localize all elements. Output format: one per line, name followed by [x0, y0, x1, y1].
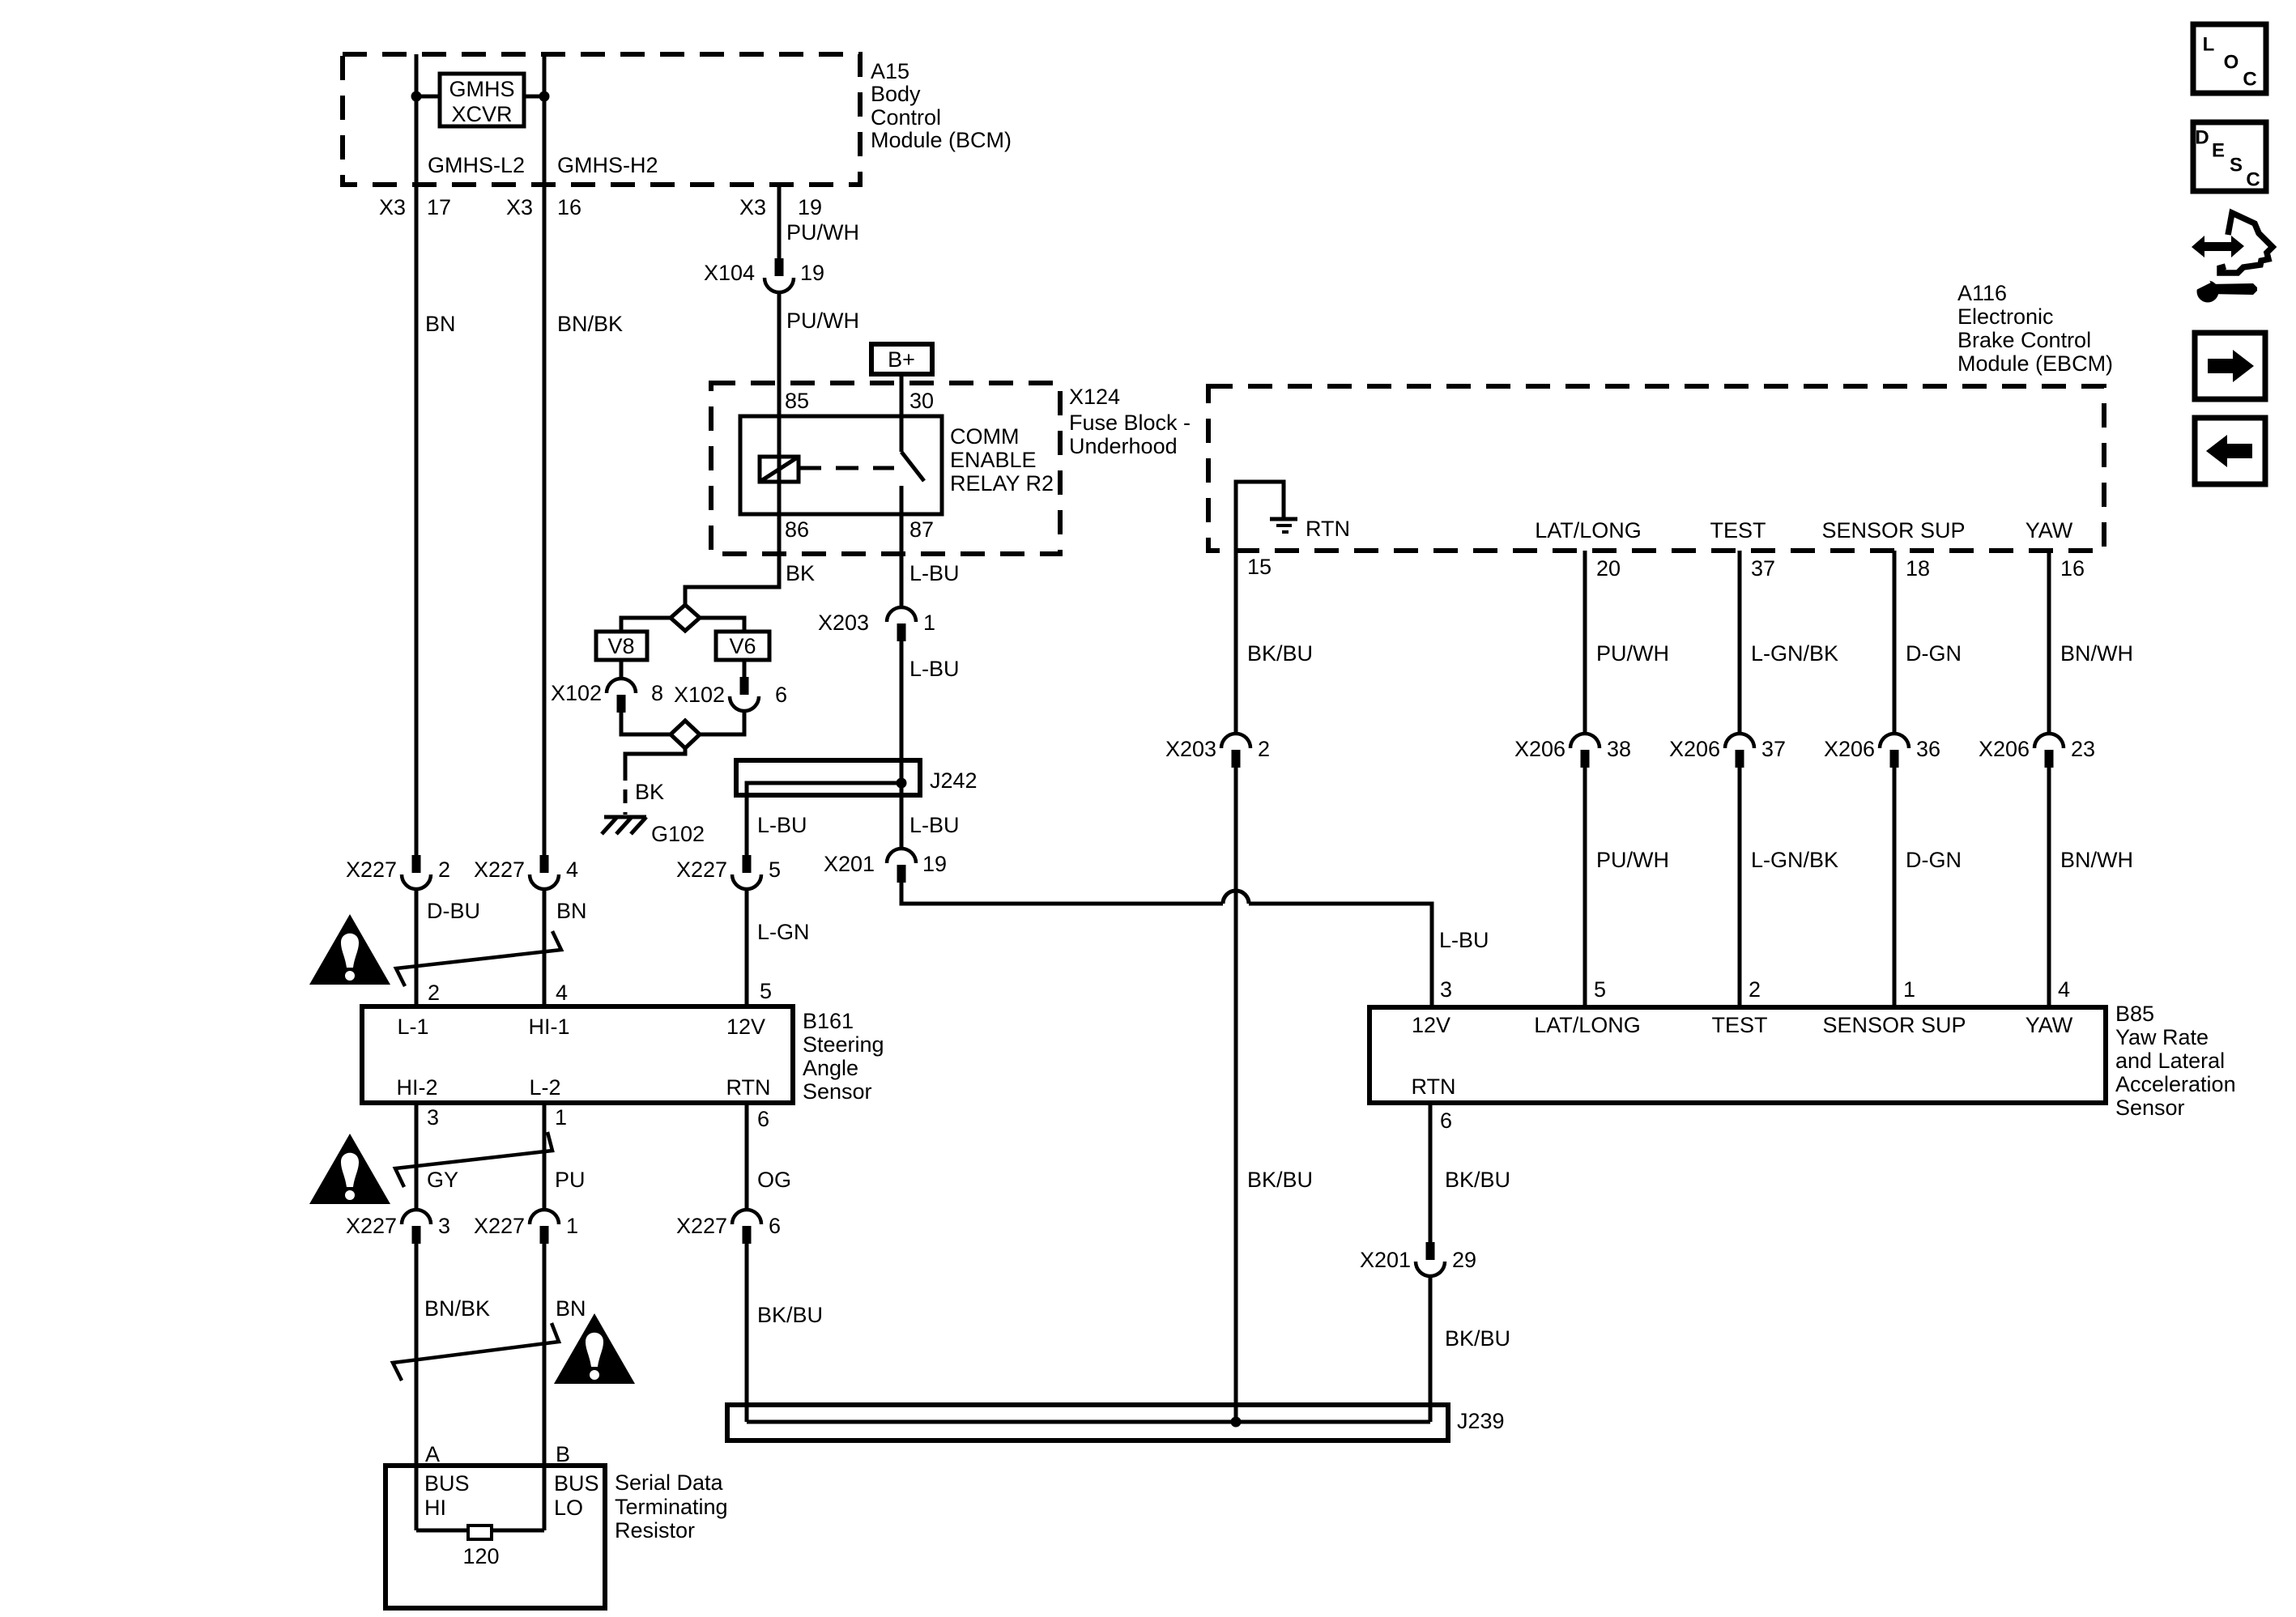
svg-text:X206: X206	[1669, 737, 1720, 761]
svg-text:3: 3	[427, 1105, 439, 1130]
relay R2 COMM ENABLE RELAY box	[740, 416, 942, 514]
svg-text:19: 19	[922, 852, 947, 876]
svg-text:Terminating: Terminating	[615, 1495, 728, 1519]
svg-text:GY: GY	[427, 1168, 458, 1192]
svg-text:HI-2: HI-2	[396, 1075, 437, 1100]
svg-text:87: 87	[909, 517, 934, 542]
svg-text:BN: BN	[425, 312, 456, 336]
svg-text:TEST: TEST	[1711, 1013, 1767, 1037]
svg-text:L: L	[2203, 34, 2215, 56]
wire BK/BU from X227-6 to J239	[745, 1244, 749, 1422]
wire D-GN from EBCM pin 18 to X206-36	[1893, 551, 1897, 734]
svg-text:1: 1	[555, 1105, 567, 1130]
svg-text:A: A	[425, 1442, 440, 1466]
svg-text:X227: X227	[676, 1214, 727, 1238]
wire D-GN from X206-36 to B85 pin 1	[1893, 768, 1897, 1006]
svg-text:L-GN: L-GN	[757, 920, 810, 944]
connector X201 pin 29	[1360, 1242, 1476, 1276]
wire PU/WH from EBCM pin 20 to X206-38	[1583, 551, 1587, 734]
svg-text:L-BU: L-BU	[909, 561, 960, 585]
svg-text:38: 38	[1607, 737, 1631, 761]
svg-text:Electronic: Electronic	[1957, 304, 2054, 329]
svg-text:X227: X227	[474, 857, 525, 882]
svg-text:X201: X201	[824, 852, 875, 876]
svg-text:E: E	[2212, 140, 2225, 162]
wire BN/WH from X206-23 to B85 pin 4	[2047, 768, 2051, 1006]
wire L-BU from X201-19 over to B85 pin 3 (with hop)	[901, 883, 1223, 904]
svg-text:and Lateral: and Lateral	[2115, 1049, 2225, 1073]
svg-text:5: 5	[769, 857, 781, 882]
ground symbol (signal ground) inside EBCM	[1270, 519, 1297, 532]
svg-text:L-BU: L-BU	[757, 813, 807, 837]
connector X201 pin 19	[824, 849, 947, 883]
svg-text:Module (BCM): Module (BCM)	[871, 128, 1012, 152]
connector X227 pin 2	[346, 855, 450, 889]
svg-text:L-BU: L-BU	[1439, 928, 1489, 952]
svg-text:16: 16	[557, 195, 581, 219]
svg-text:17: 17	[427, 195, 451, 219]
connector X227 pin 4	[474, 855, 578, 889]
splice pack J242 box	[736, 760, 978, 795]
svg-text:LAT/LONG: LAT/LONG	[1535, 518, 1642, 543]
svg-text:G102: G102	[651, 822, 705, 846]
wire BK/BU from X203-2 down to J239	[1234, 768, 1238, 1422]
svg-text:X227: X227	[346, 1214, 397, 1238]
module A15 Body Control Module (BCM) dashed box	[343, 54, 860, 185]
svg-text:37: 37	[1761, 737, 1786, 761]
svg-text:2: 2	[428, 981, 440, 1005]
svg-text:36: 36	[1916, 737, 1940, 761]
sensor B161 Steering Angle Sensor box	[362, 1006, 793, 1103]
svg-text:RTN: RTN	[726, 1075, 770, 1100]
svg-text:Serial Data: Serial Data	[615, 1470, 724, 1495]
wire GMHS-H2 (BN/BK) from BCM to X227 pin 4	[543, 54, 547, 855]
connector X104 pin 19	[704, 258, 824, 292]
svg-text:BN/BK: BN/BK	[557, 312, 623, 336]
power feed B+ box	[871, 344, 932, 374]
svg-text:2: 2	[1749, 977, 1761, 1002]
svg-text:L-BU: L-BU	[909, 657, 960, 681]
wire BN/BK from X227-3 to resistor A	[415, 1244, 419, 1530]
svg-text:BK: BK	[635, 780, 664, 804]
svg-text:LAT/LONG: LAT/LONG	[1534, 1013, 1641, 1037]
svg-text:HI-1: HI-1	[528, 1015, 569, 1039]
wire BN from X227-1 to resistor B	[543, 1244, 547, 1530]
connector X206 pin 38	[1514, 734, 1631, 768]
svg-text:12V: 12V	[1412, 1013, 1450, 1037]
svg-text:15: 15	[1247, 555, 1272, 579]
svg-text:2: 2	[1258, 737, 1270, 761]
wire L-GN/BK from EBCM pin 37 to X206-37	[1738, 551, 1742, 734]
warning triangle 3	[554, 1313, 635, 1384]
svg-text:RTN: RTN	[1411, 1074, 1455, 1099]
svg-text:S: S	[2230, 155, 2243, 177]
svg-text:RTN: RTN	[1306, 517, 1350, 541]
svg-text:4: 4	[566, 857, 578, 882]
label Serial Data Terminating Resistor	[615, 1470, 728, 1543]
fuse V8 box	[596, 632, 647, 660]
relay actuation dashed link	[799, 466, 894, 470]
svg-text:X201: X201	[1360, 1248, 1411, 1272]
splice diamond lower	[671, 721, 700, 748]
svg-text:1: 1	[566, 1214, 578, 1238]
wire L-GN/BK from X206-37 to B85 pin 2	[1738, 768, 1742, 1006]
svg-text:HI: HI	[424, 1496, 446, 1520]
svg-text:L-1: L-1	[397, 1015, 428, 1039]
twisted pair flag 1	[396, 931, 561, 986]
svg-text:X203: X203	[1165, 737, 1216, 761]
relay coil K (with diagonal)	[760, 457, 799, 482]
wire OG from B161 pin 6 to X227-6	[745, 1103, 749, 1210]
svg-text:XCVR: XCVR	[451, 102, 512, 126]
wire BK/BU from X201-29 to J239	[1429, 1276, 1433, 1422]
svg-text:Angle: Angle	[803, 1056, 858, 1080]
connector X206 pin 23	[1979, 734, 2095, 768]
warning triangle 2	[309, 1134, 390, 1204]
resistor 120 ohm	[462, 1526, 499, 1568]
svg-text:12V: 12V	[726, 1015, 765, 1039]
svg-text:6: 6	[775, 683, 787, 707]
svg-text:X227: X227	[676, 857, 727, 882]
wire B+ to relay pin 30	[900, 374, 904, 452]
ground G102 symbol	[602, 817, 705, 846]
svg-text:D-GN: D-GN	[1906, 641, 1962, 666]
svg-text:B+: B+	[888, 347, 915, 372]
svg-text:GMHS-L2: GMHS-L2	[428, 153, 525, 177]
svg-text:PU/WH: PU/WH	[1596, 641, 1669, 666]
wire BK dashed to G102	[624, 767, 628, 815]
svg-text:Control: Control	[871, 105, 941, 130]
svg-text:BN/BK: BN/BK	[424, 1296, 490, 1321]
splice diamond upper	[671, 605, 700, 631]
twisted pair flag 2	[395, 1132, 552, 1187]
connector X102 pin 8	[551, 679, 663, 713]
label B161 Steering Angle Sensor	[803, 1009, 884, 1104]
icon DESC button	[2193, 122, 2266, 191]
junction node in J242	[897, 778, 907, 789]
svg-text:BK: BK	[786, 561, 815, 585]
svg-text:120: 120	[462, 1544, 499, 1568]
svg-text:X206: X206	[1979, 737, 2030, 761]
wire X102-6 to splice	[700, 711, 744, 734]
svg-text:4: 4	[2058, 977, 2070, 1002]
svg-text:L-BU: L-BU	[909, 813, 960, 837]
svg-text:PU/WH: PU/WH	[1596, 848, 1669, 872]
connector X102 pin 6	[674, 677, 787, 711]
svg-text:X104: X104	[704, 261, 755, 285]
svg-text:4: 4	[556, 981, 568, 1005]
svg-text:D: D	[2195, 127, 2209, 149]
svg-text:X102: X102	[551, 681, 602, 705]
svg-text:B: B	[556, 1442, 570, 1466]
svg-text:C: C	[2243, 69, 2256, 91]
wire PU/WH from X104 to relay pin 85	[777, 292, 782, 457]
svg-text:3: 3	[1440, 977, 1452, 1002]
svg-text:GMHS-H2: GMHS-H2	[557, 153, 658, 177]
svg-text:X124: X124	[1069, 385, 1120, 409]
svg-text:16: 16	[2060, 556, 2085, 581]
svg-text:J242: J242	[930, 768, 978, 793]
svg-text:BK/BU: BK/BU	[1247, 641, 1313, 666]
connector X227 pin 3	[346, 1210, 450, 1244]
svg-text:COMM: COMM	[950, 424, 1019, 449]
wire BK from relay pin 86	[685, 482, 779, 605]
wire PU/WH from X206-38 to B85 pin 5	[1583, 768, 1587, 1006]
wire EBCM internal RTN to ground	[1236, 482, 1284, 551]
svg-text:BK/BU: BK/BU	[1445, 1326, 1510, 1351]
svg-text:19: 19	[798, 195, 822, 219]
svg-text:BUS: BUS	[554, 1471, 599, 1496]
wire BK/BU from B85 pin 6 to X201-29	[1429, 1103, 1433, 1242]
svg-text:20: 20	[1596, 556, 1621, 581]
svg-text:OG: OG	[757, 1168, 791, 1192]
wire V8 to X102-8	[620, 660, 624, 679]
svg-text:D-BU: D-BU	[427, 899, 480, 923]
svg-text:Body: Body	[871, 82, 921, 106]
connector X227 pin 6	[676, 1210, 781, 1244]
svg-text:BN/WH: BN/WH	[2060, 848, 2133, 872]
wire V6 to X102-6	[743, 660, 747, 677]
icon LOC button	[2193, 24, 2266, 93]
svg-text:85: 85	[785, 389, 809, 413]
svg-text:BK/BU: BK/BU	[1247, 1168, 1313, 1192]
junction node in J239	[1231, 1417, 1242, 1428]
svg-text:PU/WH: PU/WH	[786, 309, 859, 333]
connector X203 pin 2	[1165, 734, 1270, 768]
svg-text:X206: X206	[1824, 737, 1875, 761]
connector X203 pin 1	[818, 607, 935, 641]
wire stub XCVR left	[416, 95, 440, 99]
svg-text:B85: B85	[2115, 1002, 2154, 1026]
svg-text:Steering: Steering	[803, 1032, 884, 1057]
svg-text:A116: A116	[1957, 281, 2007, 305]
wire X3-19 PU/WH from BCM to X104	[777, 185, 782, 258]
label X124 Fuse Block - Underhood	[1069, 385, 1191, 458]
svg-text:SENSOR SUP: SENSOR SUP	[1822, 1013, 1966, 1037]
svg-text:BK/BU: BK/BU	[1445, 1168, 1510, 1192]
svg-text:X203: X203	[818, 611, 869, 635]
wire to fuse V6	[700, 618, 744, 632]
svg-text:RELAY R2: RELAY R2	[950, 471, 1054, 496]
wire BK/BU from EBCM pin 15 to X203-2	[1234, 551, 1238, 734]
svg-text:PU/WH: PU/WH	[786, 220, 859, 245]
label A15 Body Control Module (BCM)	[871, 59, 1012, 152]
svg-text:PU: PU	[555, 1168, 586, 1192]
svg-text:B161: B161	[803, 1009, 854, 1033]
svg-text:V6: V6	[729, 634, 756, 658]
module X124 Fuse Block - Underhood dashed box	[711, 383, 1060, 554]
svg-text:C: C	[2246, 169, 2260, 191]
wire PU from B161 pin 1 to X227-1	[543, 1103, 547, 1210]
svg-text:TEST: TEST	[1710, 518, 1766, 543]
wire GY from B161 pin 3 to X227-3	[415, 1103, 419, 1210]
svg-text:Fuse Block -: Fuse Block -	[1069, 411, 1191, 435]
connector X206 pin 36	[1824, 734, 1940, 768]
svg-text:L-GN/BK: L-GN/BK	[1751, 848, 1838, 872]
svg-text:Underhood: Underhood	[1069, 434, 1178, 458]
wire BN/WH from EBCM pin 16 to X206-23	[2047, 551, 2051, 734]
splice pack J239 box	[727, 1405, 1505, 1440]
wire X102-8 to splice	[621, 713, 671, 734]
svg-text:SENSOR SUP: SENSOR SUP	[1821, 518, 1965, 543]
svg-text:1: 1	[1903, 977, 1915, 1002]
svg-text:37: 37	[1751, 556, 1775, 581]
warning triangle 1	[309, 914, 390, 985]
svg-text:19: 19	[800, 261, 824, 285]
label B85 Yaw Rate and Lateral Acceleration Sensor	[2115, 1002, 2236, 1120]
svg-text:Sensor: Sensor	[803, 1079, 872, 1104]
wire BN from X227-4 to B161 pin 4	[543, 889, 547, 1006]
component Serial Data Terminating Resistor box	[386, 1466, 605, 1608]
svg-text:A15: A15	[871, 59, 909, 83]
svg-text:Yaw Rate: Yaw Rate	[2115, 1025, 2209, 1049]
wire D-BU from X227-2 to B161 pin 2	[415, 889, 419, 1006]
wire to fuse V8	[621, 618, 671, 632]
svg-text:D-GN: D-GN	[1906, 848, 1962, 872]
svg-text:J239: J239	[1457, 1409, 1505, 1433]
icon car diagnostic (double arrow, car outline, wrench)	[2192, 213, 2273, 303]
svg-text:6: 6	[769, 1214, 781, 1238]
relay switch blade 30-87	[901, 452, 924, 481]
svg-text:X3: X3	[739, 195, 766, 219]
sensor B85 Yaw Rate and Lateral Acceleration Sensor box	[1370, 1007, 2106, 1103]
svg-text:X206: X206	[1514, 737, 1565, 761]
svg-text:ENABLE: ENABLE	[950, 448, 1037, 472]
svg-text:X3: X3	[506, 195, 533, 219]
bus wire inside J242	[747, 783, 901, 855]
svg-text:BN/WH: BN/WH	[2060, 641, 2133, 666]
svg-text:30: 30	[909, 389, 934, 413]
wire GMHS-L2 (BN) from BCM to X227 pin 2	[415, 54, 419, 855]
label A116 Electronic Brake Control Module (EBCM)	[1957, 281, 2113, 376]
svg-text:V8: V8	[607, 634, 634, 658]
svg-text:18: 18	[1906, 556, 1930, 581]
svg-text:YAW: YAW	[2026, 1013, 2073, 1037]
svg-text:X227: X227	[474, 1214, 525, 1238]
svg-text:BN: BN	[556, 1296, 586, 1321]
svg-text:X3: X3	[379, 195, 406, 219]
wire L-GN from X227-5 to B161 pin 5	[745, 889, 749, 1006]
svg-text:L-GN/BK: L-GN/BK	[1751, 641, 1838, 666]
svg-text:X227: X227	[346, 857, 397, 882]
bus wire inside J239	[747, 1420, 1430, 1424]
svg-text:23: 23	[2071, 737, 2095, 761]
svg-text:GMHS: GMHS	[449, 77, 515, 101]
svg-text:6: 6	[1440, 1108, 1452, 1133]
svg-text:LO: LO	[554, 1496, 583, 1520]
icon back arrow button	[2195, 418, 2265, 484]
junction node on GMHS-H2	[539, 91, 550, 102]
svg-text:Sensor: Sensor	[2115, 1096, 2185, 1120]
wire coil through relay (85 to 86)	[777, 457, 782, 482]
svg-text:29: 29	[1452, 1248, 1476, 1272]
connector X227 pin 1	[474, 1210, 578, 1244]
svg-text:Resistor: Resistor	[615, 1518, 695, 1543]
svg-text:BK/BU: BK/BU	[757, 1303, 823, 1327]
svg-text:5: 5	[1594, 977, 1606, 1002]
module A116 Electronic Brake Control Module (EBCM) dashed box	[1208, 386, 2104, 551]
wire resistor link	[416, 1529, 544, 1533]
svg-text:8: 8	[651, 681, 663, 705]
wire L-BU from X203-1 down through J242 to X201-19	[900, 641, 904, 849]
svg-text:1: 1	[923, 611, 935, 635]
connector X206 pin 37	[1669, 734, 1786, 768]
svg-text:86: 86	[785, 517, 809, 542]
wire splice to ground (solid part)	[625, 748, 685, 767]
icon next arrow button	[2195, 333, 2265, 399]
svg-text:5: 5	[760, 979, 772, 1003]
label COMM ENABLE RELAY R2	[950, 424, 1054, 496]
twisted pair flag 3	[393, 1323, 559, 1381]
svg-text:L-2: L-2	[529, 1075, 560, 1100]
wire stub XCVR right	[524, 95, 544, 99]
fuse V6 box	[716, 632, 769, 660]
connector X227 pin 5	[676, 855, 781, 889]
svg-text:2: 2	[438, 857, 450, 882]
svg-text:BUS: BUS	[424, 1471, 470, 1496]
block GMHS XCVR transceiver U1	[440, 74, 524, 126]
svg-text:YAW: YAW	[2026, 518, 2073, 543]
junction node on GMHS-L2	[411, 91, 422, 102]
svg-text:Acceleration: Acceleration	[2115, 1072, 2236, 1096]
svg-text:BN: BN	[556, 899, 587, 923]
svg-text:Brake Control: Brake Control	[1957, 328, 2091, 352]
wire L-BU from relay pin 87 to X203	[900, 486, 904, 607]
svg-text:O: O	[2224, 52, 2239, 74]
svg-text:Module (EBCM): Module (EBCM)	[1957, 351, 2113, 376]
svg-text:3: 3	[438, 1214, 450, 1238]
svg-text:6: 6	[757, 1107, 769, 1131]
svg-text:X102: X102	[674, 683, 725, 707]
